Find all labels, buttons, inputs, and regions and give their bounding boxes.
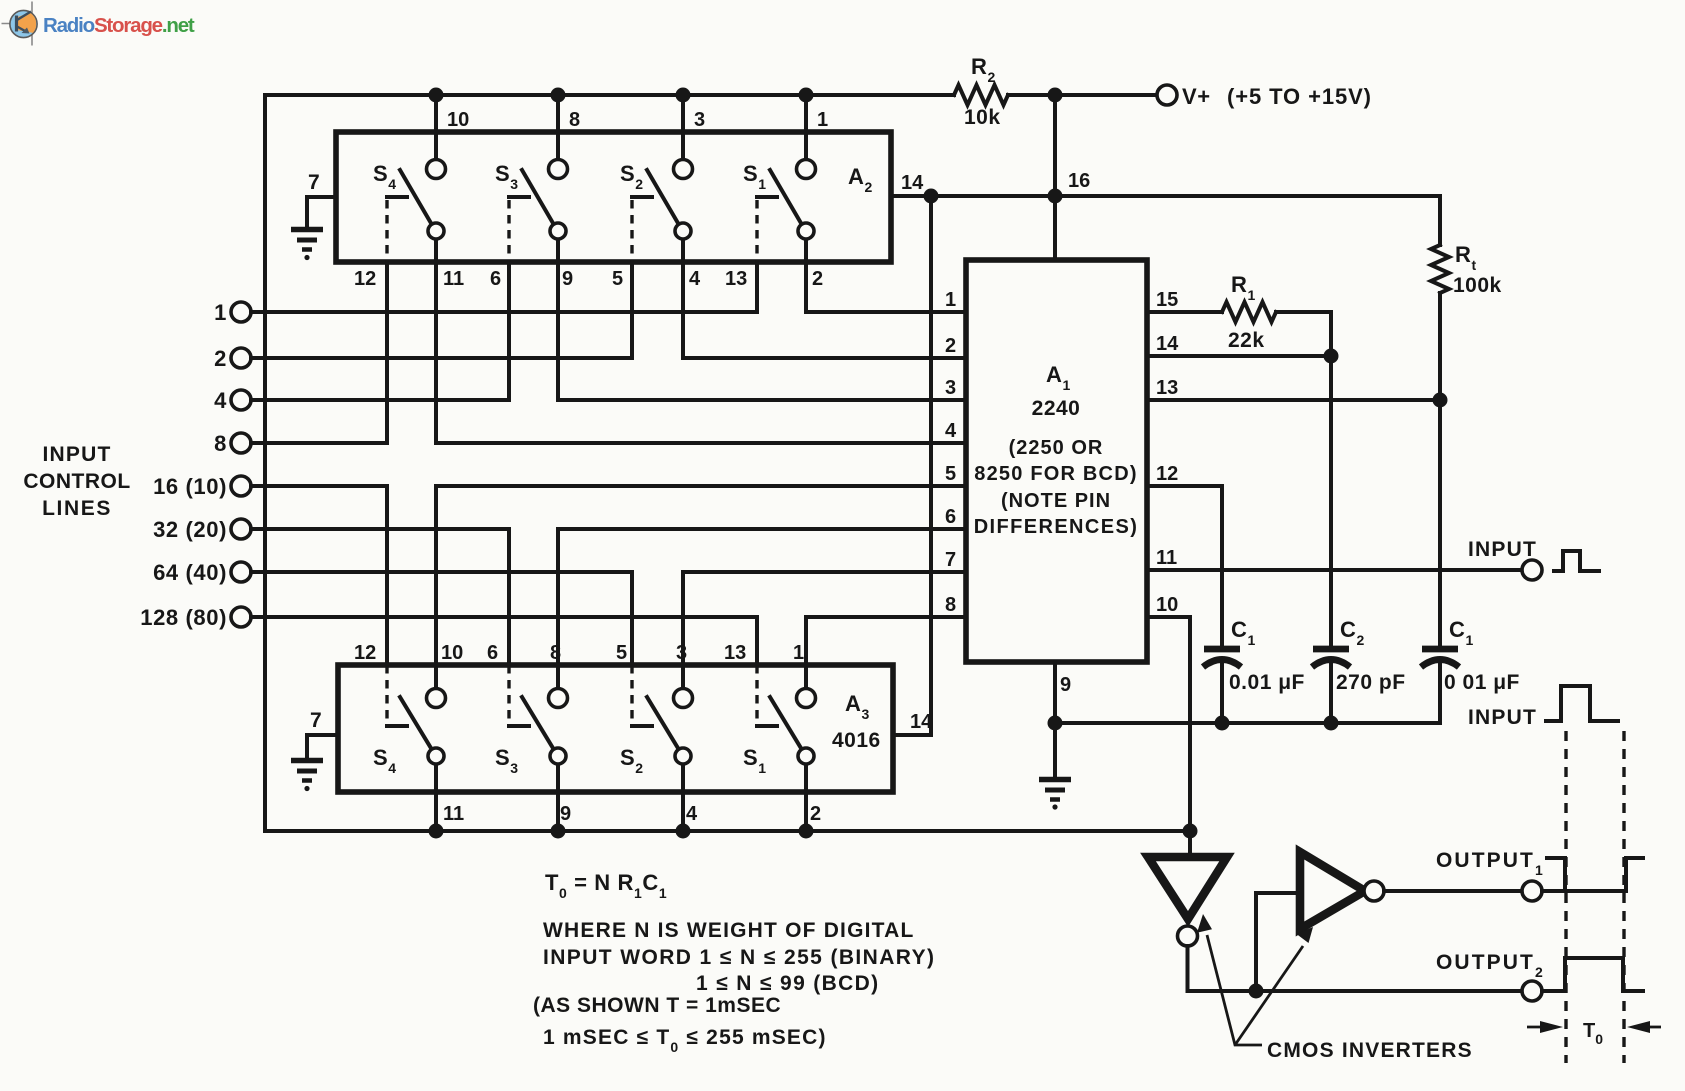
timing dashed line right <box>1622 731 1625 1063</box>
node V+ junction <box>1048 88 1063 103</box>
label A2 <box>848 164 873 195</box>
capacitor C2 270 pF <box>1312 617 1406 723</box>
terminal OUTPUT2 <box>1436 951 1545 1001</box>
node bus junction top x=436 <box>429 88 444 103</box>
node bus junction top x=683 <box>676 88 691 103</box>
svg-text:14: 14 <box>1156 333 1179 355</box>
node pin 9 junction <box>1048 716 1063 731</box>
terminal input control line 4 <box>214 388 251 413</box>
waveform input pulse (top) <box>1554 551 1599 571</box>
svg-text:13: 13 <box>724 642 746 664</box>
node pin14 junction <box>924 189 939 204</box>
svg-text:RadioStorage.net: RadioStorage.net <box>43 14 195 37</box>
svg-text:4: 4 <box>689 268 701 290</box>
node pin10/bus junction <box>1183 824 1198 839</box>
svg-text:6: 6 <box>490 268 501 290</box>
wire R1 to pin14 line / C2 branch <box>1329 312 1333 646</box>
svg-text:0 01 μF: 0 01 μF <box>1444 671 1520 694</box>
svg-text:WHERE N IS WEIGHT OF DIGITAL: WHERE N IS WEIGHT OF DIGITAL <box>543 919 915 942</box>
switch S4 (A2) <box>373 95 446 262</box>
resistor R1 22k (pin 15) <box>1147 272 1331 352</box>
timing dashed line left <box>1564 731 1567 1063</box>
wire A2 pin 12 control drop <box>385 262 389 443</box>
svg-text:3: 3 <box>945 377 956 399</box>
terminal input control line 2 <box>214 346 251 371</box>
svg-text:1: 1 <box>945 289 956 311</box>
svg-text:(AS SHOWN T = 1mSEC: (AS SHOWN T = 1mSEC <box>533 994 781 1017</box>
svg-text:9: 9 <box>560 803 571 825</box>
wire V+ rail to Rt (pins 14/16) <box>891 196 1440 245</box>
node bus junction top x=806 <box>799 88 814 103</box>
svg-text:5: 5 <box>612 268 623 290</box>
wire IC pin 14 <box>1147 354 1331 358</box>
svg-text:15: 15 <box>1156 289 1178 311</box>
svg-text:14: 14 <box>901 172 924 194</box>
terminal V+ (+5 TO +15V) <box>1157 84 1372 109</box>
node bus junction bottom x=558 <box>551 824 566 839</box>
svg-text:12: 12 <box>354 642 376 664</box>
wire inverter U2 output to OUTPUT1 <box>1384 889 1521 893</box>
capacitor C1 0.01 μF <box>1203 617 1305 723</box>
terminal input control line 1 <box>214 300 251 325</box>
svg-text:8: 8 <box>550 642 561 664</box>
wire IC pin 12 to C1 <box>1147 486 1222 646</box>
wire A2 pin 5 control drop <box>630 262 634 358</box>
svg-text:11: 11 <box>443 803 464 825</box>
svg-text:4016: 4016 <box>832 729 881 752</box>
terminal input control line 128 (80) <box>140 605 251 630</box>
svg-text:LINES: LINES <box>42 497 112 520</box>
svg-text:5: 5 <box>945 463 956 485</box>
node bus junction bottom x=436 <box>429 824 444 839</box>
wire control line 128 (80) left segment <box>251 615 757 619</box>
wire A2 pin 4 output drop <box>681 262 685 358</box>
svg-text:3: 3 <box>694 109 705 131</box>
wire control line 4 left segment <box>251 398 509 402</box>
waveform input pulse (lower) <box>1546 686 1618 721</box>
wire A3 pin 5 control riser <box>630 572 634 665</box>
terminal input control line 64 (40) <box>153 560 251 585</box>
ground A2 pin 7 <box>291 230 323 261</box>
svg-text:7: 7 <box>945 549 956 571</box>
terminal INPUT (pin 11) <box>1468 538 1542 580</box>
wire IC pin 13 to Rt <box>1147 398 1440 402</box>
svg-text:2: 2 <box>812 268 823 290</box>
svg-text:CMOS INVERTERS: CMOS INVERTERS <box>1267 1039 1473 1062</box>
svg-text:0.01 μF: 0.01 μF <box>1229 671 1305 694</box>
svg-text:3: 3 <box>676 642 687 664</box>
wire A2 pin 9 output drop <box>556 262 560 400</box>
wire A2 pin 7 <box>307 171 336 226</box>
wire A3 pin 1 riser <box>804 617 808 665</box>
wire control line 64 (40) to IC pin 7 <box>683 570 966 574</box>
svg-text:2240: 2240 <box>1032 397 1081 420</box>
switch S2 (A2) <box>620 95 693 262</box>
IC A1 right pin labels <box>1156 289 1179 616</box>
wire A2 pin 6 control drop <box>507 262 511 400</box>
svg-text:8: 8 <box>214 431 227 456</box>
wire control line 128 (80) to IC pin 8 <box>806 615 966 619</box>
label INPUT (trigger waveform) <box>1468 706 1537 729</box>
wire A2 pin 11 output drop <box>434 262 438 443</box>
svg-text:4: 4 <box>686 803 698 825</box>
wire control line 2 to IC pin 2 <box>683 356 966 360</box>
svg-text:22k: 22k <box>1228 329 1265 352</box>
wire A2 pin14 / A3 pin14 tie <box>929 196 933 735</box>
svg-text:8: 8 <box>569 109 580 131</box>
wire A3 pin 7 <box>307 709 338 757</box>
node bus junction bottom x=683 <box>676 824 691 839</box>
svg-text:16 (10): 16 (10) <box>153 474 227 499</box>
resistor Rt 100k <box>1431 242 1502 646</box>
ground A3 pin 7 <box>291 761 323 792</box>
wire A2 pin 13 control drop <box>755 262 759 312</box>
node pin16 junction <box>1048 189 1063 204</box>
wire IC pin 9 <box>1055 662 1071 723</box>
svg-text:8: 8 <box>945 594 956 616</box>
wire control line 1 left segment <box>251 310 757 314</box>
wire control line 4 to IC pin 3 <box>558 398 966 402</box>
svg-text:(+5 TO +15V): (+5 TO +15V) <box>1227 84 1372 109</box>
svg-text:2: 2 <box>945 335 956 357</box>
svg-text:INPUT: INPUT <box>1468 538 1537 561</box>
svg-text:12: 12 <box>1156 463 1178 485</box>
switch S2 (A3) <box>620 665 693 831</box>
dimension arrows T0 <box>1527 1020 1661 1047</box>
svg-text:270 pF: 270 pF <box>1336 671 1406 694</box>
IC A1 left pin labels 1-8 <box>945 289 957 616</box>
wire inverter U1 output to OUTPUT2 <box>1188 946 1522 991</box>
node bus junction top x=558 <box>551 88 566 103</box>
label CMOS INVERTERS with arrows <box>1197 914 1473 1062</box>
svg-text:CONTROL: CONTROL <box>23 470 130 493</box>
svg-text:INPUT: INPUT <box>1468 706 1537 729</box>
svg-text:13: 13 <box>725 268 747 290</box>
svg-text:10: 10 <box>1156 594 1178 616</box>
IC A1 2240 timer box <box>966 260 1147 662</box>
wire IC pin 10 to inverter <box>1147 617 1190 857</box>
label INPUT CONTROL LINES <box>23 443 130 520</box>
wire control line 8 to IC pin 4 <box>436 441 966 445</box>
label A1 2240 (2250 OR 8250 FOR BCD)(NOTE PIN DIFFERENCES) <box>974 362 1139 538</box>
svg-text:1: 1 <box>817 109 828 131</box>
svg-text:64 (40): 64 (40) <box>153 560 227 585</box>
wire A3 pin 14 <box>893 711 933 735</box>
svg-text:DIFFERENCES): DIFFERENCES) <box>974 516 1139 538</box>
node C1 ground junction <box>1215 716 1230 731</box>
wire control line 2 left segment <box>251 356 632 360</box>
wire R2 to V+ <box>1008 93 1157 97</box>
wire A3 pin 12 control riser <box>385 486 389 665</box>
svg-text:5: 5 <box>616 642 627 664</box>
switch S3 (A2) <box>495 95 568 262</box>
switch S3 (A3) <box>495 665 568 831</box>
waveform OUTPUT1 <box>1542 858 1643 891</box>
svg-text:9: 9 <box>562 268 573 290</box>
wire IC pin 16 to V+ <box>1055 95 1090 260</box>
wire control line 16 (10) to IC pin 5 <box>436 484 966 488</box>
IC A3 quad bilateral switch box <box>338 665 893 792</box>
svg-text:1: 1 <box>793 642 804 664</box>
ground IC pin 9 <box>1039 723 1071 810</box>
waveform OUTPUT2 <box>1542 958 1643 991</box>
node pin13/Rt junction <box>1433 393 1448 408</box>
svg-text:V+: V+ <box>1182 84 1211 109</box>
logo RadioStorage.net <box>2 2 195 46</box>
terminal OUTPUT1 <box>1436 849 1545 901</box>
svg-text:8250 FOR BCD): 8250 FOR BCD) <box>974 463 1137 485</box>
svg-text:9: 9 <box>1060 674 1071 696</box>
switch S1 (A3) <box>743 665 816 831</box>
wire control line 1 to IC pin 1 <box>806 310 966 314</box>
svg-text:4: 4 <box>945 420 957 442</box>
label timing formula <box>533 870 935 1055</box>
inverter U1 (CMOS, pointing down) <box>1148 857 1227 946</box>
svg-text:2: 2 <box>810 803 821 825</box>
svg-text:6: 6 <box>487 642 498 664</box>
svg-text:11: 11 <box>443 268 464 290</box>
wire control line 32 (20) to IC pin 6 <box>558 527 966 531</box>
wire A2 pin 14 <box>891 172 931 196</box>
terminal input control line 8 <box>214 431 251 456</box>
IC A2 quad bilateral switch box <box>336 132 891 262</box>
svg-text:2: 2 <box>214 346 227 371</box>
label A3 4016 <box>832 691 881 752</box>
svg-text:12: 12 <box>354 268 376 290</box>
inverter U2 (CMOS, pointing right) <box>1300 852 1384 929</box>
node pin14/R1 junction <box>1324 349 1339 364</box>
svg-text:7: 7 <box>310 709 322 732</box>
wire control line 16 (10) left segment <box>251 484 387 488</box>
wire ground bus under caps <box>1055 721 1440 725</box>
terminal input control line 16 (10) <box>153 474 251 499</box>
svg-text:4: 4 <box>214 388 227 413</box>
svg-text:128 (80): 128 (80) <box>140 605 227 630</box>
wire A3 pin 13 control riser <box>755 617 759 665</box>
wire A3 pin 6 control riser <box>507 529 511 665</box>
wire control line 8 left segment <box>251 441 387 445</box>
svg-text:10: 10 <box>441 642 463 664</box>
node inverter chain junction <box>1249 984 1264 999</box>
resistor R2 10k <box>954 54 1008 129</box>
svg-text:INPUT WORD 1 ≤ N ≤ 255 (BINARY: INPUT WORD 1 ≤ N ≤ 255 (BINARY) <box>543 946 935 969</box>
svg-text:(NOTE PIN: (NOTE PIN <box>1001 490 1111 512</box>
terminal input control line 32 (20) <box>153 517 251 542</box>
wire A2 pin 2 output drop <box>804 262 808 312</box>
svg-text:16: 16 <box>1068 170 1090 192</box>
svg-text:11: 11 <box>1156 547 1177 569</box>
svg-text:1 ≤ N ≤ 99 (BCD): 1 ≤ N ≤ 99 (BCD) <box>696 972 880 995</box>
wire A3 pin 10 riser <box>434 486 438 665</box>
A3 pin number labels <box>354 642 821 825</box>
svg-text:7: 7 <box>308 171 320 194</box>
node C2 ground junction <box>1324 716 1339 731</box>
wire control line 32 (20) left segment <box>251 527 509 531</box>
wire control line 64 (40) left segment <box>251 570 632 574</box>
wire IC pin 11 to INPUT <box>1147 568 1521 572</box>
A2 pin number labels <box>354 109 828 290</box>
node bus junction bottom x=806 <box>799 824 814 839</box>
svg-text:32 (20): 32 (20) <box>153 517 227 542</box>
capacitor C1 0 01 μF <box>1421 617 1520 723</box>
svg-text:13: 13 <box>1156 377 1178 399</box>
svg-text:10k: 10k <box>964 106 1001 129</box>
switch S1 (A2) <box>743 95 816 262</box>
wire A3 pin 8 riser <box>556 529 560 665</box>
svg-text:INPUT: INPUT <box>43 443 112 466</box>
svg-text:1: 1 <box>214 300 227 325</box>
wire A3 pin 3 riser <box>681 572 685 665</box>
wire junction to inverter U2 input <box>1256 893 1299 991</box>
wire common timing bus (top, left, bottom) <box>265 95 1188 831</box>
svg-text:(2250 OR: (2250 OR <box>1009 437 1104 459</box>
svg-text:100k: 100k <box>1453 274 1502 297</box>
svg-text:6: 6 <box>945 506 956 528</box>
svg-text:10: 10 <box>447 109 469 131</box>
switch S4 (A3) <box>373 665 446 831</box>
